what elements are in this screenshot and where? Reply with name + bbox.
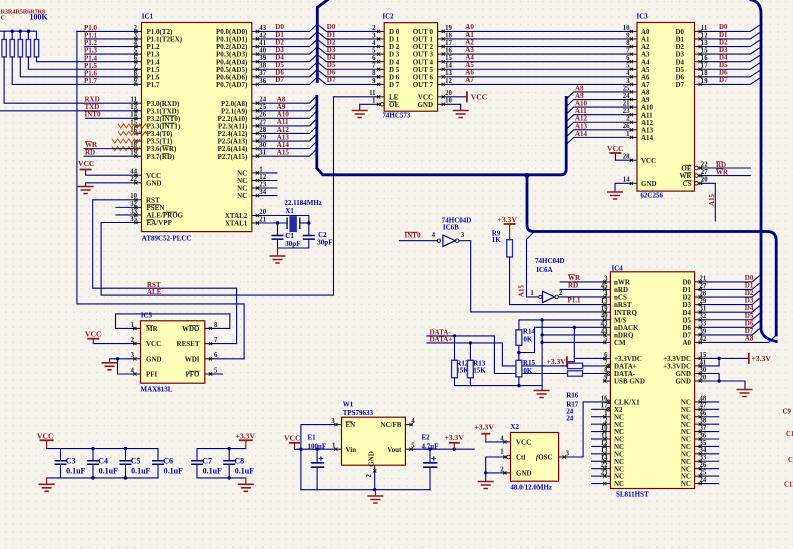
svg-text:NC: NC: [237, 192, 247, 200]
wire A0 to bus: [702, 336, 776, 343]
svg-text:X2: X2: [510, 423, 519, 431]
IC5 pin 4 PFI: [133, 373, 140, 375]
svg-text:0.1uF: 0.1uF: [99, 467, 118, 476]
svg-text:31: 31: [700, 306, 707, 313]
wire NC stub right: [702, 468, 720, 470]
wire +3.3V to nDACK: [568, 327, 574, 361]
svg-text:24: 24: [700, 477, 707, 484]
IC3 pin 24 A9: [630, 99, 637, 101]
wire P2.3 A11 to bus: [259, 119, 317, 126]
resistor R5: [18, 39, 22, 57]
svg-text:XTAL1: XTAL1: [225, 220, 248, 228]
capacitor C2: [303, 236, 315, 240]
svg-text:11: 11: [701, 25, 708, 32]
IC2 pin 15 OUT4: [438, 61, 445, 63]
wire R14 bottom to nDACK: [519, 327, 603, 352]
IC5 pin 7 RESET: [205, 343, 212, 345]
wire LE: [334, 96, 378, 98]
wire +3.3VDC pins to power: [702, 357, 749, 359]
svg-text:36: 36: [259, 78, 266, 85]
IC3 pin 16 D4: [695, 61, 702, 63]
svg-text:22: 22: [601, 462, 608, 469]
IC4 pin 10 NC: [603, 431, 610, 433]
svg-text:Vin: Vin: [346, 446, 357, 454]
svg-text:22: 22: [130, 176, 137, 183]
svg-text:VCC: VCC: [146, 340, 161, 348]
capacitor E1 electrolytic: [316, 449, 318, 463]
svg-text:D7: D7: [719, 76, 728, 84]
svg-text:GND: GND: [417, 101, 433, 109]
wire NC stub right: [702, 445, 720, 447]
capacitor C6 0.1uF: [157, 449, 159, 461]
IC2 pin 4 D2: [377, 46, 384, 48]
svg-text:CS: CS: [683, 180, 692, 188]
wire A0 from IC2 OUT0 to 62C256 A0: [445, 30, 630, 32]
svg-text:14: 14: [445, 63, 452, 70]
svg-text:16: 16: [601, 395, 608, 402]
wire D5 IC4 to bus: [702, 313, 761, 320]
svg-text:5: 5: [214, 367, 218, 374]
IC4 pin 20 GND: [695, 380, 702, 382]
wire P2.7 A15 to bus: [259, 149, 317, 156]
svg-text:IC5: IC5: [141, 312, 153, 320]
wire PFO stub: [212, 373, 223, 375]
svg-text:C4: C4: [98, 457, 108, 466]
wire A1 from IC2 OUT1 to 62C256 A1: [445, 38, 630, 40]
net INT0 wire: [86, 117, 135, 119]
IC3 pin 8 A2: [630, 46, 637, 48]
power VCC at IC2 pin20: [445, 96, 467, 98]
svg-text:EN: EN: [346, 421, 356, 429]
svg-text:VCC: VCC: [37, 432, 53, 441]
wire NC stub right: [702, 475, 720, 477]
IC3 pin 15 D3: [695, 53, 702, 55]
IC4 pin 5 CM: [603, 341, 610, 343]
IC5 pin 3 GND: [133, 358, 140, 360]
IC4 pin 13 NC: [603, 453, 610, 455]
svg-text:GND: GND: [368, 451, 376, 467]
wire IC6A out to nCS: [558, 296, 603, 298]
svg-text:20: 20: [701, 177, 708, 184]
IC3 pin 25 A8: [630, 91, 637, 93]
svg-text:+3.3V: +3.3V: [236, 432, 256, 441]
svg-text:DATA+: DATA+: [430, 336, 453, 344]
ground at IC2 pin10: [453, 111, 469, 118]
resistor series DATA- (24R): [568, 371, 583, 376]
wire NC stub: [259, 172, 278, 174]
svg-text:12: 12: [445, 78, 452, 85]
ground X2: [485, 473, 487, 482]
IC1 pin 11 P3.0(RXD): [134, 102, 141, 104]
svg-text:WDO: WDO: [182, 325, 200, 333]
wire NC stub left: [591, 468, 603, 470]
wire NC stub right: [702, 416, 720, 418]
svg-text:17: 17: [445, 40, 452, 47]
wire D2 IC4 to bus: [702, 290, 761, 297]
wire A8 bus entry to IC3: [567, 92, 630, 99]
wire P1.0 to MAX813L WDI: [77, 31, 244, 358]
wire X2 pin17 stub: [592, 408, 604, 410]
svg-text:6: 6: [134, 55, 138, 62]
svg-text:15K: 15K: [473, 367, 486, 375]
IC3 pin 27 WR: [698, 175, 702, 177]
net WR wire to IC4: [560, 281, 603, 283]
IC2 pin 18 OUT1: [438, 38, 445, 40]
svg-text:4: 4: [604, 290, 608, 297]
resistor R7: [34, 39, 38, 57]
svg-text:44: 44: [601, 328, 608, 335]
svg-text:27: 27: [700, 283, 707, 290]
wire IC6B out to IC4 INTRQ: [459, 241, 603, 312]
svg-text:D7: D7: [327, 76, 336, 84]
IC1 pin 23 NC: [252, 187, 259, 189]
svg-text:P2.7(A15): P2.7(A15): [218, 153, 248, 161]
wire XTAL2 to crystal right: [259, 216, 309, 236]
X2 pin 1 Ctl: [503, 456, 507, 458]
svg-text:38: 38: [259, 63, 266, 70]
resistor R9: [507, 240, 513, 257]
wire NC stub right: [702, 460, 720, 462]
svg-text:39: 39: [700, 328, 707, 335]
svg-text:13: 13: [601, 298, 608, 305]
svg-text:12: 12: [701, 32, 708, 39]
svg-text:29: 29: [259, 134, 266, 141]
wire NC stub left: [591, 483, 603, 485]
wire IC2 GND pin10 to ground: [445, 104, 461, 110]
IC1 pin 1 NC: [252, 172, 259, 174]
resistor R14 body: [516, 330, 522, 345]
svg-text:A14: A14: [575, 130, 588, 138]
net WR wire: [84, 148, 135, 150]
IC4 pin 43 nDACK: [603, 326, 610, 328]
wire R7 to P1.4: [37, 57, 135, 62]
svg-text:24: 24: [623, 93, 630, 100]
IC4 pin 27 D1: [695, 288, 702, 290]
svg-text:5: 5: [372, 48, 376, 55]
svg-text:45: 45: [601, 283, 608, 290]
svg-text:20: 20: [259, 209, 266, 216]
wire D3 IC3 to right bus: [702, 47, 761, 54]
wire D0 IC3 to right bus: [702, 25, 761, 32]
svg-text:+3.3V: +3.3V: [498, 215, 518, 224]
svg-text:24: 24: [259, 97, 266, 104]
svg-text:13: 13: [701, 40, 708, 47]
wire R3 to RXD: [4, 57, 134, 103]
svg-text:INT0: INT0: [85, 111, 101, 119]
svg-text:24: 24: [566, 415, 574, 423]
svg-text:C13: C13: [784, 482, 793, 489]
IC2 pin 1 OE: [377, 103, 381, 105]
IC3 pin 5 A5: [630, 68, 637, 70]
wire crystal ground rail: [278, 247, 309, 249]
wire P0.6 to bus with entries and net labels D6: [259, 70, 317, 77]
svg-text:13: 13: [130, 104, 137, 111]
wire NC stub right: [702, 453, 720, 455]
IC1 pin 13 P3.1(TXD): [134, 110, 141, 112]
svg-text:5: 5: [411, 443, 415, 450]
wire NC stub left: [591, 416, 603, 418]
IC4 pin 35 NC: [695, 445, 702, 447]
capacitor C3 0.1uF: [60, 449, 62, 461]
wire NC stub right: [702, 483, 720, 485]
resistor R6: [26, 39, 30, 57]
svg-text:GND: GND: [516, 470, 532, 478]
svg-text:14: 14: [130, 112, 137, 119]
svg-text:IC1: IC1: [142, 13, 154, 21]
svg-text:GND: GND: [146, 179, 162, 187]
IC1 pin 36 P0.7(AD7): [252, 83, 259, 85]
wire D6 IC3 to right bus: [702, 70, 761, 77]
capacitor C1: [277, 223, 279, 236]
IC1 pin 9 P1.7: [134, 83, 141, 85]
wire P0.3 to bus with entries and net labels D3: [259, 47, 317, 54]
svg-text:VCC: VCC: [284, 434, 300, 443]
svg-text:A15: A15: [277, 148, 290, 156]
IC3 pin 4 A6: [630, 76, 637, 78]
resistor R12: [454, 336, 456, 361]
wire A2 from IC2 OUT2 to 62C256 A2: [445, 46, 630, 48]
IC3 pin 14 GND: [630, 182, 637, 184]
svg-text:1: 1: [372, 98, 376, 105]
svg-text:2: 2: [366, 474, 373, 478]
svg-text:10: 10: [601, 425, 608, 432]
wire GND pin: [486, 472, 504, 474]
svg-text:A15: A15: [708, 193, 716, 206]
wire crystal right plate: [300, 222, 309, 224]
svg-text:37: 37: [700, 425, 707, 432]
svg-text:1: 1: [604, 410, 608, 417]
ERC marker squiggle P3.4: [118, 131, 148, 135]
IC1 pin 6 P1.4: [134, 61, 141, 63]
svg-text:2: 2: [372, 25, 376, 32]
svg-text:10: 10: [623, 25, 630, 32]
IC3 pin 2 A12: [630, 121, 637, 123]
svg-text:C2: C2: [318, 231, 327, 239]
IC1 pin 30 P2.6(A14): [252, 148, 259, 150]
IC1 pin 31 P2.7(A15): [252, 155, 259, 157]
resistor series DATA+ (24R): [568, 363, 583, 368]
IC1 pin 26 P2.2(A10): [252, 117, 259, 119]
svg-text:9: 9: [626, 32, 630, 39]
ground at C8: [245, 478, 247, 484]
svg-text:30: 30: [259, 142, 266, 149]
ERC marker squiggle P3.6: [112, 147, 140, 151]
svg-text:15: 15: [700, 352, 707, 359]
IC1 pin 19 P3.7(RD): [134, 155, 141, 157]
IC4 pin 16 CLK/X1: [603, 401, 607, 403]
IC4 pin 17 X2: [603, 408, 607, 410]
ground crystal: [277, 248, 279, 256]
wire Vout: [412, 448, 474, 450]
IC4 pin 38 NC: [695, 423, 702, 425]
bus junction dot: [524, 173, 529, 178]
wire A6 from IC2 OUT6 to 62C256 A6: [445, 76, 630, 78]
wire P0.1 to bus with entries and net labels D1: [259, 32, 317, 39]
svg-text:6: 6: [626, 55, 630, 62]
W1 pin 5 Vout: [405, 448, 412, 450]
wire D0 IC4 to bus: [702, 275, 761, 282]
svg-text:/VPP: /VPP: [155, 219, 172, 227]
IC2 pin 13 OUT6: [438, 76, 445, 78]
svg-text:43: 43: [259, 25, 266, 32]
svg-text:8: 8: [372, 70, 376, 77]
IC4 pin 6 +3.3VDC: [603, 357, 610, 359]
svg-text:5: 5: [626, 63, 630, 70]
wire D3 IC4 to bus: [702, 298, 761, 305]
wire A11 bus entry to IC3: [567, 115, 630, 122]
svg-text:5: 5: [604, 336, 608, 343]
IC3 pin 11 D0: [695, 30, 702, 32]
svg-text:+3.3V: +3.3V: [445, 433, 465, 442]
svg-text:C5: C5: [131, 457, 141, 466]
svg-text:18: 18: [445, 32, 452, 39]
svg-text:4: 4: [134, 40, 138, 47]
svg-text:32: 32: [700, 313, 707, 320]
IC1 pin 4 P1.2: [134, 46, 141, 48]
IC4 pin 21 D0: [695, 281, 702, 283]
wire NC stub right: [702, 408, 720, 410]
IC1 pin 40 P0.3(AD3): [252, 53, 259, 55]
svg-text:28: 28: [259, 127, 266, 134]
svg-text:41: 41: [700, 359, 707, 366]
svg-text:33: 33: [130, 208, 137, 215]
wire MR to WDO loop: [116, 314, 230, 329]
wire D4 IC4 to bus: [702, 305, 761, 312]
svg-text:NC: NC: [614, 480, 624, 488]
wire A12 bus entry to IC3: [567, 122, 630, 129]
op-amp IC4 body SL811HST: [610, 272, 694, 489]
power VCC at IC3 pin28: [615, 159, 630, 161]
svg-text:4: 4: [500, 435, 504, 442]
ground at IC3 pin14: [615, 182, 630, 184]
wire NC stub right: [702, 401, 720, 403]
IC2 pin 8 D6: [377, 76, 384, 78]
IC2 pin 3 D1: [377, 38, 384, 40]
IC1 pin 16 P3.4(T0): [134, 132, 141, 134]
X2 pin 2 GND: [503, 472, 510, 474]
svg-text:VCC: VCC: [641, 157, 656, 165]
wire resistor top rail: [0, 31, 37, 39]
IC4 pin 12 NC: [603, 445, 610, 447]
svg-text:MR: MR: [146, 325, 159, 333]
IC3 pin 19 D7: [695, 83, 702, 85]
X2 pin 3 fOSC: [559, 456, 566, 458]
IC2 pin 12 OUT7: [438, 83, 445, 85]
svg-text:34: 34: [259, 189, 266, 196]
IC1 pin 18 P3.6(WR): [134, 148, 141, 150]
resistor R15: [518, 353, 520, 361]
wire D1 IC4 to bus: [702, 282, 761, 289]
svg-text:5: 5: [134, 48, 138, 55]
wire NC stub: [259, 180, 278, 182]
svg-text:0.1uF: 0.1uF: [235, 467, 254, 476]
svg-text:43: 43: [601, 321, 608, 328]
IC2 pin 9 D7: [377, 83, 384, 85]
svg-text:VCC: VCC: [78, 159, 94, 168]
svg-text:30pF: 30pF: [317, 239, 332, 247]
svg-text:21: 21: [623, 101, 630, 108]
IC4 pin 3 nWR: [603, 281, 610, 283]
wire Ctl to GND: [486, 457, 504, 473]
svg-text:14: 14: [601, 455, 608, 462]
IC2 pin 6 D4: [377, 61, 384, 63]
svg-text:A0: A0: [682, 339, 691, 347]
IC1 pin 33 ALE/PROG: [134, 214, 141, 216]
svg-text:PFO: PFO: [186, 371, 201, 379]
svg-text:25: 25: [623, 85, 630, 92]
wire ground rail R12 R13 R15: [455, 385, 543, 387]
net P1.3 wire: [85, 53, 135, 55]
svg-text:WDI: WDI: [185, 355, 200, 363]
svg-text:NC: NC: [681, 480, 691, 488]
net DATA+ wire: [427, 343, 568, 366]
svg-text:25: 25: [700, 470, 707, 477]
svg-text:26: 26: [259, 112, 266, 119]
svg-text:20: 20: [700, 374, 707, 381]
IC1 pin 15 P3.3(INT1): [134, 125, 141, 127]
svg-text:100uF: 100uF: [308, 442, 327, 450]
IC3 pin 22 OE: [698, 167, 702, 169]
svg-text:33: 33: [700, 455, 707, 462]
IC4 pin 4 nCS: [603, 296, 610, 298]
wire NC stub: [259, 195, 278, 197]
svg-text:23: 23: [623, 108, 630, 115]
svg-text:8: 8: [214, 322, 218, 329]
svg-text:35: 35: [130, 216, 137, 223]
svg-text:12: 12: [601, 440, 608, 447]
IC1 pin 38 P0.5(AD5): [252, 68, 259, 70]
net RD wire to IC4: [560, 288, 603, 290]
power +3.3V near IC4: [566, 356, 568, 367]
IC1 pin 17 P3.5(T1): [134, 140, 141, 142]
wire NC stub left: [591, 475, 603, 477]
IC1 pin 34 NC: [252, 195, 259, 197]
svg-text:W1: W1: [343, 401, 354, 409]
net A15 wire from CS: [702, 183, 716, 221]
IC1 pin 8 P1.6: [134, 76, 141, 78]
IC5 pin 2 VCC: [133, 343, 140, 345]
svg-text:C9: C9: [783, 409, 792, 416]
wire A14 bus entry to IC3: [567, 137, 630, 144]
svg-text:10: 10: [445, 98, 452, 105]
svg-text:25: 25: [259, 104, 266, 111]
svg-text:INT0: INT0: [405, 232, 421, 240]
IC1 pin 29 P2.5(A13): [252, 140, 259, 142]
IC1 pin 37 P0.6(AD6): [252, 76, 259, 78]
svg-text:10: 10: [130, 193, 137, 200]
svg-text:4: 4: [131, 367, 135, 374]
svg-text:fOSC: fOSC: [536, 454, 553, 462]
wire XTAL1 to crystal left: [259, 222, 287, 224]
IC1 pin 32 PSEN: [134, 206, 141, 208]
wire NC stub: [259, 187, 278, 189]
svg-text:46: 46: [700, 410, 707, 417]
svg-text:A7: A7: [465, 76, 474, 84]
svg-text:13: 13: [445, 70, 452, 77]
svg-text:74HC573: 74HC573: [382, 112, 411, 120]
svg-text:+3.3V: +3.3V: [752, 354, 772, 363]
net RD wire: [702, 167, 751, 169]
wire NC stub right: [702, 423, 720, 425]
svg-text:0.1uF: 0.1uF: [203, 467, 222, 476]
svg-text:41: 41: [259, 40, 266, 47]
IC1 pin 28 P2.4(A12): [252, 132, 259, 134]
IC4 pin 37 NC: [695, 431, 702, 433]
svg-text:IC4: IC4: [612, 265, 624, 273]
capacitor C8 0.1uF: [228, 449, 230, 461]
IC3 pin 18 D6: [695, 76, 702, 78]
svg-text:19: 19: [601, 306, 608, 313]
